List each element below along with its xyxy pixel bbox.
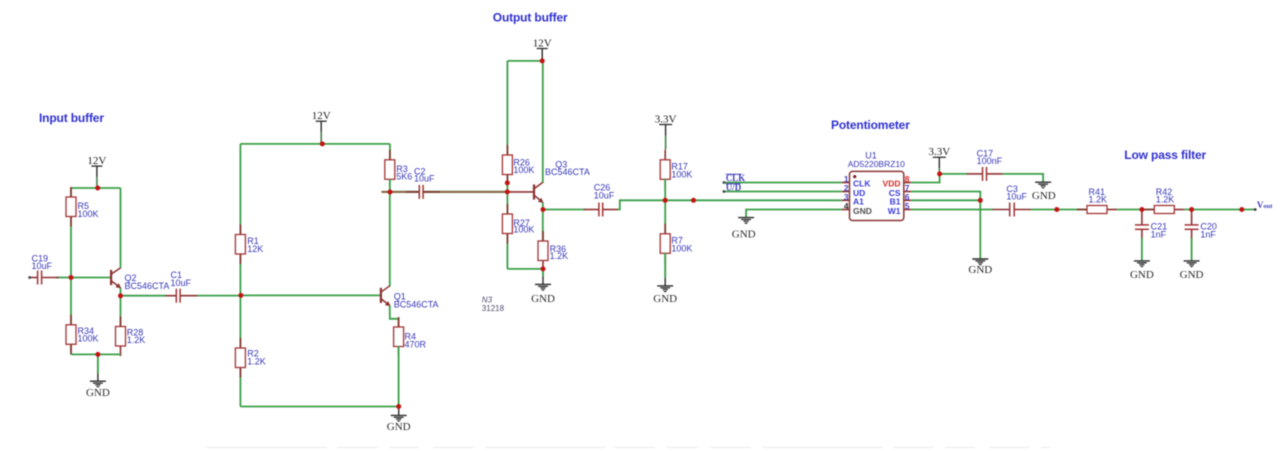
wire Q1 collector vertical	[389, 192, 391, 286]
wire Q3 collector vertical	[542, 61, 544, 183]
wire C20 to ground	[1191, 238, 1193, 261]
resistor R1	[235, 225, 263, 265]
resistor R4	[394, 317, 427, 357]
junction bottom rail	[95, 352, 100, 357]
wire U1 pin5 W1 to C3	[911, 209, 993, 211]
junction divider	[663, 198, 668, 203]
svg-text:1.2K: 1.2K	[1089, 195, 1108, 205]
svg-text:100K: 100K	[513, 225, 534, 235]
svg-text:W1: W1	[888, 206, 901, 216]
svg-text:1nF: 1nF	[1151, 229, 1167, 239]
resistor R3	[385, 150, 413, 190]
svg-text:100K: 100K	[671, 169, 692, 179]
svg-text:GND: GND	[387, 421, 411, 433]
svg-text:Output buffer: Output buffer	[493, 10, 568, 24]
junction C20 tap	[1189, 207, 1194, 212]
power 12V (output buffer)	[533, 37, 552, 61]
resistor R26	[502, 145, 534, 185]
wire stage2 bottom rail	[240, 406, 398, 408]
wire C21 to ground	[1141, 238, 1143, 261]
power 3.3V (VDD)	[928, 146, 950, 174]
wire R3 branch vertical	[389, 144, 391, 161]
svg-text:100K: 100K	[78, 334, 99, 344]
transistor Q2	[111, 268, 169, 291]
resistor R41	[1077, 187, 1117, 214]
svg-text:12V: 12V	[87, 155, 106, 167]
junction at 12V rail	[95, 186, 100, 191]
wire C3 to R41	[1031, 209, 1088, 211]
svg-text:5K6: 5K6	[396, 172, 412, 182]
wire CLK to U1 pin1	[724, 182, 842, 184]
svg-text:GND: GND	[732, 228, 756, 240]
resistor R27	[502, 204, 534, 244]
svg-text:1.2K: 1.2K	[247, 356, 266, 366]
svg-text:GND: GND	[1032, 190, 1056, 202]
svg-text:3.3V: 3.3V	[928, 146, 950, 158]
wire U/D to U1 pin2	[724, 191, 842, 193]
junction Q1 base node	[238, 293, 243, 298]
wire U1 pin4 to ground	[746, 210, 842, 218]
capacitor C26	[584, 183, 618, 217]
svg-text:1.2K: 1.2K	[550, 251, 569, 261]
ground (C17)	[1032, 182, 1056, 202]
svg-text:5: 5	[905, 201, 910, 211]
wire input-buffer bottom rail	[71, 353, 121, 355]
svg-text:GND: GND	[968, 264, 992, 276]
resistor R28	[116, 317, 146, 357]
svg-text:10uF: 10uF	[32, 261, 53, 271]
capacitor C19	[30, 253, 59, 284]
svg-text:BC546CTA: BC546CTA	[545, 167, 590, 177]
junction base net	[505, 189, 510, 194]
resistor R7	[660, 224, 692, 263]
net label CLK	[726, 173, 746, 183]
resistor R2	[235, 338, 265, 378]
junction CS/B1	[978, 198, 983, 203]
svg-text:Low pass filter: Low pass filter	[1124, 148, 1206, 162]
junction output node	[1239, 207, 1244, 212]
wire Q3 emitter vertical	[542, 202, 544, 241]
transistor Q3	[534, 159, 590, 203]
wire red net C2 run	[382, 191, 508, 193]
wire input-buffer left vertical	[70, 188, 72, 354]
wire base to Q1	[240, 294, 380, 296]
junction bottom GND stage2	[396, 404, 401, 409]
svg-text:Input buffer: Input buffer	[39, 111, 104, 125]
terminal CLK	[723, 181, 726, 184]
ground (input buffer)	[86, 354, 110, 399]
capacitor C2	[406, 167, 440, 199]
svg-text:100K: 100K	[513, 165, 534, 175]
wire R17 to junction	[664, 179, 666, 235]
wire output left vertical	[506, 61, 508, 269]
resistor R36	[538, 231, 568, 271]
wire Q1 emitter jog	[390, 305, 399, 327]
wire R42 to output	[1184, 209, 1255, 211]
power 12V (stage 2)	[312, 110, 331, 144]
wire R4 to bottom rail	[398, 346, 400, 407]
capacitor C1	[166, 270, 198, 303]
svg-text:12K: 12K	[247, 244, 263, 254]
wire VDD to C17	[940, 173, 967, 175]
svg-text:10uF: 10uF	[594, 190, 615, 200]
ground (U1 pin4)	[732, 218, 756, 241]
junction C19/R5/R34/base	[69, 275, 74, 280]
terminal mark C19 input	[28, 276, 31, 279]
wire R3 to junction	[389, 179, 391, 192]
resistor R42	[1144, 187, 1184, 214]
svg-text:Potentiometer: Potentiometer	[831, 118, 910, 132]
junction Q3 emitter	[541, 207, 546, 212]
svg-text:GND: GND	[853, 206, 872, 216]
junction after C3	[1054, 207, 1059, 212]
op-amp IC U1 AD5220BRZ10 body	[842, 171, 911, 220]
junction 12V output	[540, 58, 545, 63]
ground (CS/B1)	[968, 259, 992, 276]
svg-text:10uF: 10uF	[414, 174, 435, 184]
power 12V (input buffer)	[87, 155, 106, 188]
svg-text:31218: 31218	[482, 304, 505, 313]
wire Q2 collector vertical	[120, 188, 122, 268]
junction R3/C2/collector	[388, 190, 393, 195]
junction 12V stage2	[320, 141, 325, 146]
wire C26 jog up to pot net	[618, 200, 666, 209]
wire red net C2 run overlay	[382, 191, 508, 193]
wire Q3 emitter to C26	[543, 209, 585, 211]
svg-text:GND: GND	[531, 293, 555, 305]
junction VDD node	[937, 171, 942, 176]
ground (stage 2)	[387, 407, 411, 433]
svg-text:470R: 470R	[405, 339, 427, 349]
svg-text:12V: 12V	[533, 37, 552, 49]
terminal Vout	[1254, 208, 1257, 211]
wire Q2 emitter to C1	[121, 295, 167, 297]
junction R26 bottom	[505, 180, 510, 185]
svg-text:10uF: 10uF	[171, 278, 192, 288]
wire divider to U1 A1	[665, 199, 842, 201]
wire stage2 left vertical	[239, 144, 241, 407]
svg-text:4: 4	[844, 201, 849, 211]
resistor R17	[660, 150, 692, 190]
wire B1 node to ground	[979, 200, 981, 259]
capacitor C21	[1135, 210, 1167, 239]
capacitor C17	[967, 148, 1003, 181]
wire input-buffer top rail	[71, 187, 121, 189]
svg-text:1.2K: 1.2K	[1156, 195, 1175, 205]
wire output top rail	[507, 60, 542, 62]
window edge artifact	[207, 447, 1050, 449]
ground (C21)	[1130, 261, 1154, 281]
junction on A1 net	[691, 198, 696, 203]
wire U1 pin8 to 3.3V node	[911, 174, 939, 183]
svg-text:GND: GND	[1130, 269, 1154, 281]
svg-text:GND: GND	[1180, 269, 1204, 281]
ground (output buffer)	[531, 269, 555, 305]
ground (divider)	[653, 253, 677, 305]
wire Q3 base lead	[507, 191, 533, 193]
svg-text:10uF: 10uF	[1006, 191, 1027, 201]
wire C1 to stage2	[198, 295, 241, 297]
wire C19 to Q2 base	[56, 277, 110, 279]
ground (C20)	[1180, 261, 1204, 281]
wire Q2 emitter vertical	[120, 288, 122, 327]
power 3.3V (divider)	[655, 113, 677, 149]
svg-text:100nF: 100nF	[977, 156, 1003, 166]
svg-text:12V: 12V	[312, 110, 331, 122]
wire U1 pin7 CS	[911, 192, 980, 201]
svg-text:1nF: 1nF	[1200, 229, 1216, 239]
svg-text:3.3V: 3.3V	[655, 113, 677, 125]
transistor Q1	[381, 286, 439, 310]
svg-text:GND: GND	[86, 387, 110, 399]
wire output bottom rail	[507, 268, 543, 270]
junction output GND	[541, 266, 546, 271]
capacitor C20	[1185, 210, 1217, 239]
svg-text:100K: 100K	[671, 243, 692, 253]
wire C17 to ground	[1003, 174, 1044, 182]
svg-text:BC546CTA: BC546CTA	[125, 281, 170, 291]
wire stage2 top rail	[240, 143, 390, 145]
junction C21 tap	[1139, 207, 1144, 212]
resistor R34	[66, 315, 99, 355]
terminal U/D	[723, 190, 726, 193]
svg-text:1.2K: 1.2K	[127, 335, 146, 345]
svg-text:GND: GND	[653, 293, 677, 305]
junction Q2 emitter	[118, 293, 123, 298]
svg-text:BC546CTA: BC546CTA	[394, 300, 439, 310]
wire R41 to R42	[1117, 209, 1155, 211]
svg-text:AD5220BRZ10: AD5220BRZ10	[848, 159, 905, 169]
net label U/D	[726, 183, 742, 193]
resistor R5	[66, 187, 99, 227]
wire U1 pin6 B1	[911, 199, 980, 201]
capacitor C3	[993, 184, 1031, 217]
svg-text:100K: 100K	[78, 209, 99, 219]
